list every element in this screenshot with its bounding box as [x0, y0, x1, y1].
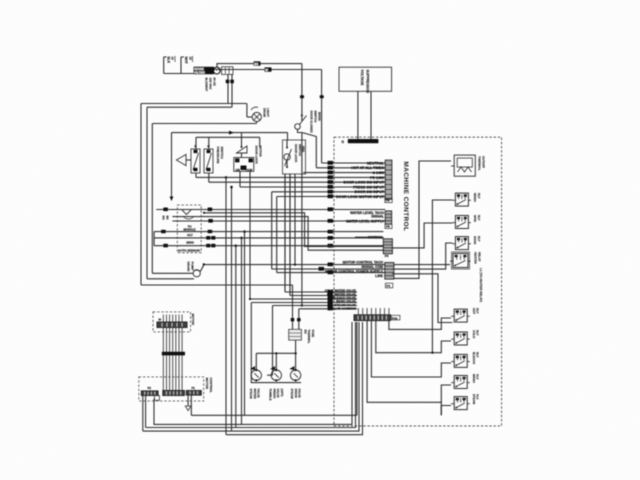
power cord terminal label BLK [164, 56, 175, 74]
wire auto sensor row 2 [172, 219, 385, 223]
labels pin group C [325, 261, 384, 278]
relay K7 [451, 332, 470, 345]
label valve 3 [290, 389, 302, 400]
door lock motor M2 flag [237, 146, 248, 158]
wire door lock switch aux drop [294, 174, 296, 266]
pressure switch PS1 contact 1 [191, 145, 200, 173]
relay K5 heater [450, 252, 471, 269]
wire bus vertical 4 [240, 237, 243, 425]
wire bottom bus 5 [226, 322, 363, 435]
wire motor control out A [142, 396, 144, 432]
label relay K10 [472, 394, 480, 405]
wires machine control input rows [196, 163, 385, 197]
machine control enclosure dashed box [334, 137, 502, 426]
wire label W on N [265, 67, 272, 71]
wire relay 5 feed [394, 264, 450, 266]
connector P9 strip [385, 160, 392, 202]
door lock motor M2 body [234, 158, 254, 173]
label valve 2 [269, 389, 284, 401]
door lock switch S3 [284, 140, 292, 168]
labels pin group B [346, 211, 385, 224]
wire bottom bus 2 [154, 322, 352, 424]
wire valve row 2 [290, 174, 357, 296]
label machine control [402, 162, 409, 232]
motor control connector P1 [186, 386, 201, 395]
wire relay 2 feed [431, 200, 452, 354]
connector P8 strip [385, 211, 392, 229]
label L1 heater bus [479, 268, 483, 302]
wire color labels on valve rows [328, 290, 333, 310]
water valve V2 [270, 366, 281, 382]
relay K4 [452, 237, 471, 250]
label door lock motor [254, 146, 262, 165]
thermal cutoff TC1 [451, 155, 475, 176]
relay K6 [451, 309, 470, 322]
wire filter to left bus B [147, 75, 232, 279]
wire power entry bus [164, 73, 196, 75]
wire L1 hot [217, 64, 302, 114]
motor harness wires [163, 328, 182, 391]
motor control ground arrow [185, 395, 191, 415]
filter output terminal [222, 67, 234, 75]
motor connector strip [157, 322, 187, 328]
motor control connector P2 [141, 386, 158, 396]
wire color labels on input rows [328, 161, 334, 198]
wire bus vertical 2 [230, 186, 233, 431]
wire valve bottoms common [251, 370, 301, 383]
wire drum light return [152, 122, 256, 274]
connector P4 strip [385, 263, 394, 288]
wire door lock switch out B [289, 174, 291, 296]
wire door switch long drop [301, 133, 303, 307]
wire relay feed 6 [389, 318, 451, 329]
thermal fuse F1 [289, 330, 302, 341]
wire relay feed 9 [367, 321, 451, 403]
wire water level jog 1 [203, 212, 384, 247]
wire bus vertical 5 [243, 230, 246, 415]
label relay K9 [472, 374, 480, 383]
label relay K8 [472, 352, 480, 364]
motor winding pins [159, 315, 183, 323]
chassis arrow at pressure switch [176, 154, 191, 165]
label pressure switch [216, 147, 224, 164]
label relay K6 [472, 308, 480, 314]
wire drain pump row [200, 263, 385, 272]
motor dashed box [153, 312, 191, 332]
wire thermal cutoff feed [394, 161, 451, 278]
motor control dashed box [139, 377, 204, 401]
wire N neutral [220, 70, 321, 164]
wire relay 3 feed [391, 223, 452, 248]
relay K10 [451, 397, 470, 410]
wire filter to left bus A [141, 75, 293, 285]
label auto sensor bottom [178, 249, 201, 253]
label thermal cutoff [478, 156, 486, 171]
motor harness band [162, 352, 185, 356]
relay K2 [452, 193, 471, 206]
wire fuse to valve 3 [294, 340, 296, 370]
wire pressure switch NO out [195, 173, 197, 177]
wire label pair on filter drops [226, 80, 234, 84]
wire valve row 6 [299, 309, 357, 330]
splice dot N [320, 95, 324, 98]
relay K9 [451, 376, 470, 389]
label drum light [263, 108, 271, 117]
wire bus vertical 3 [235, 244, 238, 427]
wire valve row 4 [251, 303, 357, 370]
wire bottom bus 3 [146, 322, 356, 428]
wire water level jog 2 [172, 217, 383, 251]
wire relay feed 10 [441, 402, 451, 415]
splice dot L1 [300, 95, 304, 98]
wire group C row 3 [277, 197, 385, 275]
voltage suppressor box [339, 67, 392, 93]
label auto sensor left [162, 216, 170, 221]
label relay K4 [473, 236, 481, 245]
water valve V1 [250, 366, 261, 382]
wire auto sensor row 1 [156, 207, 385, 211]
pressure switch PS1 contact 2 [204, 145, 213, 173]
connector P1 ground bar [342, 139, 379, 144]
drain pump M3 [193, 263, 205, 277]
power cord terminal label WHT [181, 56, 193, 74]
wire auto sensor row 3 [154, 230, 383, 234]
wire bus vertical 1 [225, 176, 228, 435]
label relay K3 [473, 215, 481, 222]
wire group C row 2 [272, 192, 385, 271]
wire sensor harness row 5 [154, 244, 383, 248]
wire valve row 3 [249, 171, 357, 300]
label motor control [205, 378, 213, 393]
wire relay feed 7 [376, 321, 451, 353]
wire bottom bus 1 [191, 322, 357, 415]
motor control sub component [154, 396, 159, 401]
wire pressure switch NC out [208, 173, 210, 182]
label relay K5 [474, 252, 482, 265]
label valve 1 [249, 389, 261, 400]
wire bottom bus 4 [143, 322, 359, 431]
connector P3 strip [383, 239, 392, 258]
motor control connector MJ1 [163, 391, 185, 396]
auto sensor drive arrow [170, 133, 174, 202]
wire door lock switch out A [284, 174, 286, 292]
wire suppressor lead 1 [357, 91, 359, 139]
wire sensor harness row 4 [154, 236, 383, 240]
wire motor control out B [145, 396, 147, 428]
wire suppressor lead 2 [370, 91, 372, 139]
label door lock switch [294, 144, 306, 163]
P10 pin stubs [358, 308, 389, 315]
wire door closed switch out [302, 133, 316, 168]
wire valve row 1 [285, 174, 357, 292]
label relay K2 [473, 193, 481, 202]
wire relay feed 8 [371, 321, 451, 377]
wire pressure switch top feed [196, 137, 260, 149]
label row normal [355, 235, 383, 239]
wire drum light feed [247, 104, 252, 118]
labels valve rows [325, 288, 357, 310]
door closed switch S2 [295, 114, 307, 133]
wire door lock switch feed [287, 133, 289, 140]
door lock switch S3 box [283, 140, 306, 174]
wire label BK on L1 [254, 61, 261, 65]
wire door lock top feed [172, 131, 288, 147]
choke L1 [213, 67, 220, 74]
line filter FL1 [194, 67, 215, 75]
wire valve row 5 [273, 306, 358, 370]
label relay K7 [472, 330, 480, 338]
water valve V3 [289, 366, 300, 382]
auto sensor thermistor [182, 210, 196, 232]
label below filter [205, 78, 217, 92]
wire relay 4 feed [392, 243, 452, 269]
wire valve common branch [256, 352, 295, 370]
connector P10 strip [354, 315, 400, 321]
wire relay 6 lower feed [392, 274, 452, 323]
auto sensor contacts [186, 233, 194, 245]
auto sensor dashed box [177, 205, 201, 253]
labels machine control input pins [336, 161, 385, 199]
relay K8 [451, 354, 470, 367]
wire sensor harness drop [153, 232, 155, 246]
label door closed switch [310, 111, 322, 134]
label thermal fuse [304, 330, 316, 344]
relay K3 [452, 216, 471, 229]
label drain pump [186, 262, 194, 273]
label motor [191, 314, 195, 326]
wire thermal fuse feed [291, 285, 301, 330]
drum light DL1 [251, 107, 261, 122]
wire door lock motor out [239, 171, 241, 187]
